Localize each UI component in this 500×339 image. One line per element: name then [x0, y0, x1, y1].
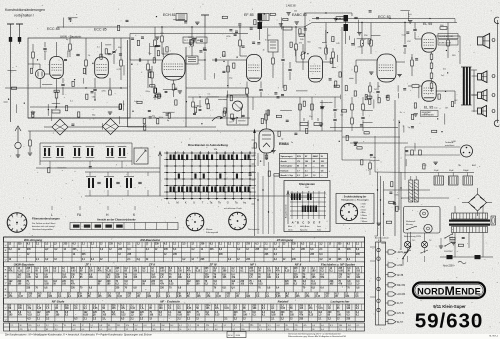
wire: PSU horizontal connectors	[384, 189, 431, 191]
switch contact in dial box	[407, 227, 415, 230]
wire: heater run	[341, 131, 343, 160]
anode resistor R21	[161, 36, 164, 42]
electrolytic capacitor block C81 (vertical cans)	[409, 180, 413, 202]
table band C title	[4, 297, 365, 299]
wire: EM84 supply	[266, 120, 268, 129]
terminal lug 12V 81	[386, 312, 389, 314]
wire: strip feeds from schematic	[380, 236, 382, 242]
output transformer T2 (laminated core)	[463, 67, 465, 105]
table dense values row	[4, 291, 365, 293]
wire: main anode supply bus	[57, 26, 304, 28]
anode IF transformer F4	[268, 40, 278, 52]
svg-text:Röhrenvoltmeter geg. Masse. Al: Röhrenvoltmeter geg. Masse. Alle W.-Anga…	[288, 335, 347, 338]
wire: speaker returns	[472, 75, 478, 77]
wire: EM84 feed down to table zone	[254, 130, 256, 236]
mains filter capacitor block C80	[434, 176, 444, 185]
wire: AM aerial bus	[130, 33, 248, 35]
EM84 grid resistor	[266, 153, 268, 160]
wire: chassis line below UKW box	[28, 117, 250, 119]
parts at top of screening box	[154, 88, 157, 93]
wire: HT distribution right side	[374, 136, 376, 172]
coil L osc LW	[88, 178, 90, 188]
boxed padder caps C20	[176, 14, 187, 21]
resistor R71	[411, 150, 414, 155]
parts right of screening box	[192, 102, 195, 107]
wires around ECH81	[162, 53, 174, 55]
wire: PSU vertical harness	[377, 172, 379, 236]
dial lamps	[404, 241, 410, 247]
loudspeaker LS4	[478, 108, 482, 114]
anode resistor R51	[370, 40, 373, 46]
terminal lug 81,5T	[386, 321, 389, 323]
scatter: left margin small parts	[16, 104, 18, 113]
tuning gang capacitor	[134, 148, 148, 164]
switch contacts upper row	[170, 155, 172, 161]
table: tube voltages (Spannungen)	[280, 154, 328, 178]
anode resistor R50	[361, 40, 364, 46]
dial drive mechanism box	[404, 207, 441, 234]
wires ECC83	[356, 59, 377, 61]
capacitor C2	[43, 47, 46, 49]
volume pot P2	[302, 52, 305, 59]
loudspeaker LS2	[478, 74, 482, 80]
trimmer capacitor C8	[112, 50, 115, 52]
oscillator coil assembly strip	[85, 171, 160, 173]
wire: right edge trunk with connector arcs	[497, 20, 499, 123]
wire: vertical feed at dial area	[204, 15, 206, 27]
wire: bus vertical at x305	[304, 13, 306, 54]
scatter: top strip extra	[68, 17, 78, 19]
loudspeaker LS3	[478, 92, 482, 98]
grid resistor R52	[355, 66, 358, 72]
UKW tuner box outline	[28, 38, 130, 118]
resistor R15	[147, 64, 150, 70]
speckle: scan noise specks	[313, 237, 316, 240]
wire: FM IF coupling	[130, 59, 162, 61]
scatter: between EM84 and Klangtasten	[260, 160, 261, 161]
scatter: EF85 surroundings	[234, 33, 237, 35]
Nordmende logo badge	[413, 283, 485, 299]
table band B data row 2	[4, 278, 365, 280]
wire: pickup leads	[405, 146, 460, 148]
Klangtasten contact grid	[291, 191, 293, 219]
capacitor C37	[281, 58, 284, 60]
terminal lug 41,5T	[386, 302, 389, 304]
boxed label: lower EL95 note	[421, 111, 439, 117]
wire: switch leads up	[410, 232, 412, 240]
electrolytic C45 (black body)	[344, 15, 349, 22]
table band B title	[4, 261, 365, 263]
grid stoppers	[412, 85, 419, 88]
wire: reservoir cap bus	[430, 172, 474, 174]
wire: mains cord	[440, 256, 493, 258]
scatter: power supply wiring area	[396, 206, 398, 211]
terminal lug +DC-B4	[386, 293, 389, 295]
bass boost network	[333, 108, 336, 110]
resistor R22	[191, 40, 194, 46]
arrow: band switch direction	[159, 153, 161, 196]
scatter: pickup wiring zone	[423, 164, 425, 169]
dial scale ticks	[252, 139, 255, 141]
wire: bank tail columns	[257, 153, 259, 166]
wire: strip verticals	[89, 172, 91, 176]
terminal lug 39k OM	[386, 284, 389, 286]
capacitor C10	[93, 88, 96, 90]
resistor R16	[154, 40, 157, 46]
svg-text:SCH: SCH	[228, 335, 233, 337]
oscillator coil box L21	[186, 56, 198, 64]
feedback network R54	[369, 86, 372, 92]
alignment arrow	[212, 117, 223, 121]
boxed label: output transformer type	[438, 34, 458, 39]
Sockelschaltung der Roehrenfassungen box	[336, 194, 374, 224]
AM coil pack (IF cans row)	[40, 142, 132, 144]
pot P1 ratio detector level	[52, 110, 60, 113]
resistor R11	[109, 90, 112, 95]
resistor R30	[29, 140, 32, 146]
coupling caps C52	[403, 44, 406, 46]
loudspeaker LS1	[478, 37, 483, 45]
table band C header row	[4, 303, 365, 305]
scatter: top bus components	[238, 23, 241, 25]
capacitor C6	[61, 83, 64, 85]
wire: right section supply bus	[304, 23, 312, 28]
electrolytic C44 (black body) on bus	[258, 14, 263, 21]
AC symbol	[458, 261, 466, 264]
capacitor C23	[203, 48, 206, 50]
resistor R53	[411, 60, 414, 66]
terminal lug +210V	[386, 264, 389, 266]
coil L osc MW	[106, 178, 108, 188]
wire mesh inside UKW box	[32, 44, 34, 52]
lamp switch contacts	[404, 250, 411, 253]
resistor R70	[369, 163, 372, 169]
wire: antenna lead-in down left edge	[10, 52, 12, 122]
DIN socket A52	[461, 145, 473, 157]
tube V8 EM84 tuning indicator	[259, 129, 274, 153]
capacitor C14	[138, 58, 140, 61]
table band A data row 1	[4, 247, 365, 249]
resistor R36	[272, 58, 275, 64]
AM tuner screening box	[127, 40, 129, 127]
wires EF85 stage	[240, 55, 247, 57]
table band A data row 2	[4, 251, 365, 253]
connector cell strip	[70, 223, 178, 230]
tube socket view S1	[7, 213, 27, 233]
scatter: UKW box interior extra parts	[92, 63, 93, 64]
terminal lug AF 88	[386, 274, 389, 276]
table band A title	[4, 236, 365, 238]
scatter: mid right networks	[357, 32, 361, 34]
table outer frame	[4, 237, 365, 322]
wire: rectifier connections	[477, 188, 479, 194]
tone pots row	[300, 123, 308, 126]
resistor R44 on bus	[283, 27, 292, 30]
table band B data row 3	[4, 285, 365, 287]
wire: coil pack to band switch	[39, 143, 41, 165]
wire: transformer leads	[454, 206, 456, 213]
top RC row right of EABC80	[304, 12, 352, 14]
feedback resistor chain right	[351, 104, 354, 110]
ground below dipole	[17, 149, 19, 155]
coil L osc KW	[126, 178, 128, 188]
wires EABC80	[296, 61, 308, 63]
mains transformer primary winding	[452, 213, 488, 219]
ground in UKW box	[31, 111, 35, 113]
wire: heater bus pair	[312, 18, 455, 20]
wire: AVC line	[188, 96, 340, 98]
grid resistor R24	[151, 72, 154, 78]
Klangtasten switch matrix box	[284, 181, 330, 232]
table band A header row	[4, 241, 365, 243]
screen resistor R60	[440, 27, 447, 30]
top boost cap C62	[413, 28, 416, 30]
coupling to EM84	[265, 110, 267, 124]
resistor R43	[332, 52, 335, 58]
wire: IF chain links	[44, 126, 52, 128]
detector diode load R40	[295, 44, 298, 50]
mains switch on volume pot	[403, 247, 411, 258]
terminal lug -220V	[386, 251, 389, 253]
scatter: ECC83 surroundings	[415, 58, 418, 60]
resistor R5	[85, 60, 88, 66]
antenna dipole terminals	[7, 23, 14, 25]
ground: power section	[439, 245, 443, 247]
resistor stack left of output transformer	[430, 54, 433, 59]
oscillator coil can L2	[35, 69, 44, 78]
tube socket view S3	[229, 212, 247, 230]
wire: plate leads to output transformer	[436, 35, 460, 37]
scatter: output stage parts	[446, 50, 447, 51]
drawing number box	[227, 332, 246, 338]
wire: letters pointer lines	[51, 206, 53, 210]
wire: b+ drop to power section	[394, 100, 396, 236]
wires below coil pack	[36, 167, 160, 169]
wire: central earth rail	[28, 130, 342, 132]
oscillator trimmer box	[227, 95, 248, 125]
tube socket view S2	[186, 213, 204, 231]
table band B header row	[4, 265, 365, 267]
tube V7 EL95 lower	[422, 81, 436, 101]
scatter: mid column extra	[141, 36, 144, 38]
resistor R1	[32, 52, 35, 58]
scatter: right top bus components	[407, 11, 409, 20]
table band C data row 2	[4, 316, 365, 318]
boxed label pair near ECH81 osc	[183, 37, 194, 43]
Klangtasten contacts group 2	[302, 206, 304, 213]
screen resistor R35	[239, 40, 242, 46]
Klangtasten vertical label arrow	[287, 192, 289, 224]
tone network under EABC80	[299, 97, 301, 131]
push-button switch bank contact field	[166, 151, 168, 200]
table band B data row 1	[4, 272, 365, 274]
scatter: under coil pack	[89, 166, 92, 168]
wire: vertical trunk to output stage	[341, 27, 343, 131]
mains plug caps	[447, 255, 453, 259]
scatter: EABC80 surroundings	[325, 30, 327, 42]
scatter: ECH81 surroundings	[166, 47, 168, 52]
resistor R42	[325, 48, 328, 54]
mains transformer secondary winding	[452, 227, 488, 233]
table: tube pin voltage strip	[4, 323, 365, 331]
resistor R3	[69, 44, 72, 50]
resistor R9	[120, 60, 123, 66]
voltage selector switch	[445, 234, 452, 238]
terminal circles on strip	[377, 248, 380, 251]
resistor R72	[419, 150, 422, 155]
padder trimmers	[97, 181, 100, 183]
resistor R61	[447, 40, 450, 46]
cathode resistor R25	[172, 84, 175, 90]
IF transformer F1 (diamond)	[52, 119, 68, 135]
IF transformer F2 (diamond)	[103, 119, 119, 135]
speaker terminal circles	[492, 39, 495, 42]
coupling capacitor C41	[288, 68, 291, 70]
switch contacts middle sparse	[178, 174, 180, 179]
wire: mid distribution line	[5, 87, 128, 89]
boxed IF filter F3	[258, 14, 269, 21]
Klangtasten contacts group 1	[291, 194, 293, 201]
table band C data row 1	[4, 310, 365, 312]
resistor R7	[55, 92, 58, 98]
socket diagram in box	[340, 203, 357, 220]
svg-text:SL 957-1: SL 957-1	[489, 336, 499, 338]
mains transformer T3 core	[449, 220, 490, 222]
table band A data row 3	[4, 256, 365, 258]
cathode network EF85	[246, 88, 249, 94]
wire: lamp feeds	[407, 233, 409, 241]
fuse F1	[491, 216, 496, 225]
wire: secondary to speakers	[471, 69, 477, 71]
scatter: mid band extra density	[71, 123, 74, 125]
FM dipole symbol mid-left	[17, 128, 19, 142]
wire: extended earth rails right	[330, 127, 398, 129]
bridge rectifier GL1	[469, 194, 487, 211]
switch contacts lower row	[170, 187, 172, 193]
capacitor C4	[76, 53, 79, 55]
